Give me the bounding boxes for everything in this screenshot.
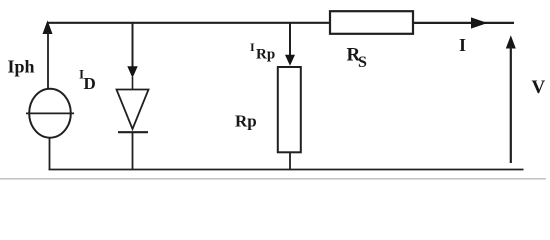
arrow IRp (shunt current, pointing down) — [285, 55, 295, 66]
wire (Rp to bottom rail) — [289, 152, 291, 170]
label ID — [79, 67, 96, 94]
wire (diode branch from rail) — [132, 23, 134, 70]
resistor RS — [330, 11, 413, 34]
arrow V (output voltage, pointing up) — [506, 35, 516, 163]
svg-text:I: I — [459, 35, 466, 55]
wire (current source to bottom rail) — [49, 138, 51, 171]
svg-text:Iph: Iph — [8, 57, 35, 77]
current source Iph — [26, 89, 74, 138]
diode D — [117, 90, 149, 133]
svg-text:D: D — [84, 74, 96, 93]
arrow Iph (current source branch, pointing up into rail) — [43, 20, 53, 89]
wire (diode to bottom rail) — [132, 132, 134, 170]
svg-text:S: S — [358, 54, 367, 71]
wire output with arrow I — [413, 17, 514, 28]
svg-text:I: I — [250, 40, 255, 54]
arrow ID (diode current, pointing down) — [127, 66, 137, 78]
wire bottom rail — [49, 169, 524, 171]
svg-text:Rp: Rp — [235, 112, 257, 131]
wire (arrow to diode) — [132, 77, 134, 90]
label RS — [347, 45, 368, 72]
wire top rail — [47, 22, 331, 24]
label IRp — [250, 40, 275, 63]
wire (Rp branch from rail) — [289, 23, 291, 60]
svg-text:V: V — [532, 77, 546, 98]
resistor Rp — [278, 67, 301, 152]
svg-text:Rp: Rp — [256, 47, 275, 63]
